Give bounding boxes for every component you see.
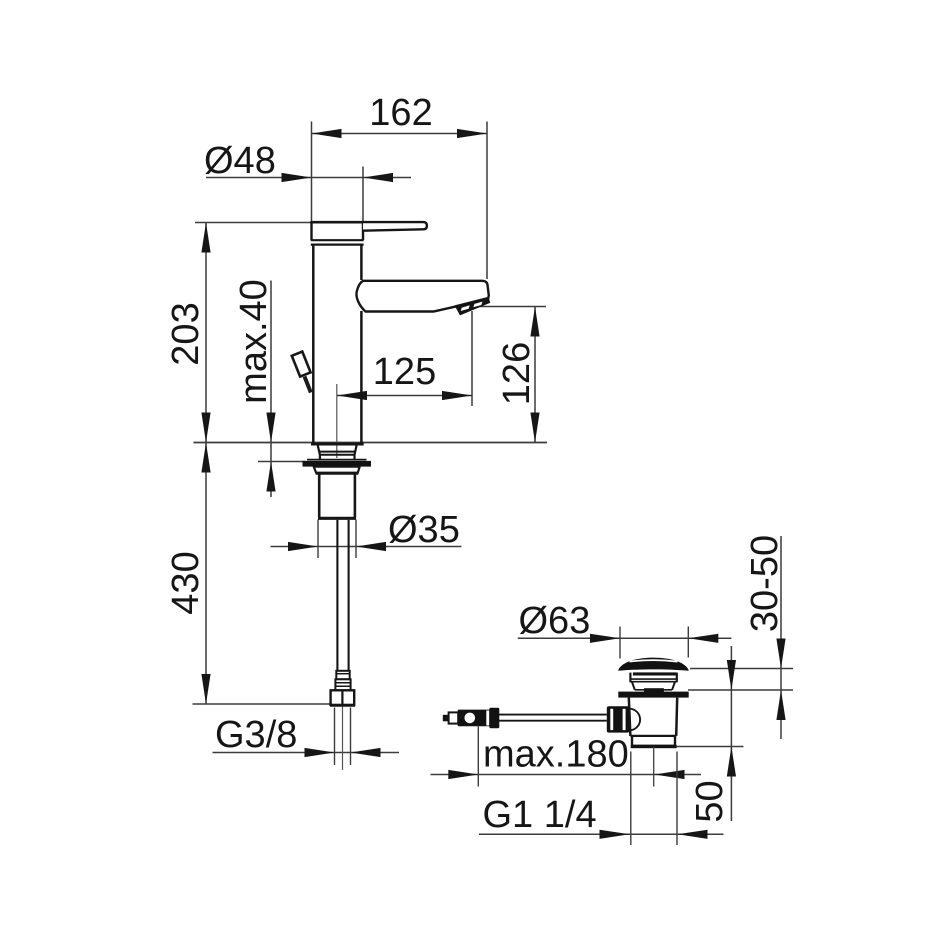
faucet handle cap top xyxy=(310,221,363,224)
shank step 2 bottom line xyxy=(319,454,355,456)
shank step 3 sides xyxy=(320,455,355,460)
dimension O63 line xyxy=(518,637,732,639)
drain plug cap white highlight arc xyxy=(630,660,678,662)
dimension 162 line xyxy=(312,133,488,135)
dimension 125 right extension line xyxy=(471,311,473,406)
ball joint arc inside body xyxy=(629,709,640,731)
dimension max.180 right arrow xyxy=(655,770,685,779)
svg-text:203: 203 xyxy=(165,302,207,365)
dimension O63 right extension line xyxy=(687,627,689,658)
dimension 126 bottom arrow xyxy=(530,413,539,443)
dimension O48 right arrow xyxy=(363,173,393,182)
dimension O48 left arrow xyxy=(282,173,312,182)
rod end nub xyxy=(443,715,450,722)
dimension 30-50 vertical line xyxy=(780,536,782,739)
dimension max.40 lower extension line xyxy=(258,461,306,463)
faucet cap left edge xyxy=(310,222,312,240)
svg-text:Ø48: Ø48 xyxy=(204,140,276,182)
mounting nut xyxy=(314,467,360,473)
pull-rod knob xyxy=(292,352,311,377)
dimension 30-50 upper extension line xyxy=(690,668,793,670)
mounting washer outline xyxy=(307,459,367,461)
hose ferrule 1 ridge xyxy=(336,673,349,675)
dimension 125 right arrow xyxy=(442,391,472,400)
svg-text:G1 1/4: G1 1/4 xyxy=(483,794,597,836)
dimension 203/430 shared vertical line xyxy=(205,223,207,705)
dimension 125 left arrow xyxy=(337,391,367,400)
faucet lever handle xyxy=(363,222,427,231)
dimension G1 1/4 right arrow xyxy=(678,830,708,839)
threaded shank right wall xyxy=(354,475,357,518)
faucet cap right edge xyxy=(362,222,364,240)
dimension 162 right extension line xyxy=(486,122,488,280)
shank step 1 sides xyxy=(318,445,357,452)
svg-text:G3/8: G3/8 xyxy=(215,714,297,756)
dimension 162 left arrow xyxy=(312,129,342,138)
supply hose left wall xyxy=(336,520,338,671)
dimension O35 right arrow xyxy=(356,542,386,551)
dimension 30-50 lower extension line xyxy=(688,689,793,691)
dimension max.40 lower arrow xyxy=(266,462,275,492)
drain plug neck taper xyxy=(632,682,675,690)
spout outline xyxy=(356,281,488,312)
dimension max.180 left arrow xyxy=(448,770,478,779)
faucet body right edge lower xyxy=(360,311,363,443)
dimension max.180 left extension line xyxy=(477,726,479,787)
dimension O48 line xyxy=(206,177,411,179)
svg-text:max.40: max.40 xyxy=(233,279,275,404)
pop-up rod bottom line xyxy=(455,720,607,722)
ball joint nut white slit 2 xyxy=(623,709,626,730)
shank step 1 bottom line xyxy=(318,451,356,453)
shank step 2 sides xyxy=(319,452,355,455)
svg-text:125: 125 xyxy=(373,351,436,393)
drain plug neck dark band xyxy=(633,672,677,675)
rod end ridge xyxy=(489,708,499,729)
dimension 30-50 lower arrow xyxy=(776,690,785,720)
aerator white slit 2 xyxy=(473,302,482,308)
dimension max.180 line xyxy=(431,774,702,776)
dimension G1 1/4 right extension line xyxy=(676,752,678,846)
pop-up rod top line xyxy=(455,714,607,716)
svg-text:126: 126 xyxy=(496,342,538,405)
faucet centre line xyxy=(336,384,338,458)
svg-text:Ø35: Ø35 xyxy=(388,509,460,551)
dimension G3/8 left arrow xyxy=(305,748,335,757)
mounting nut bottom edge xyxy=(316,472,359,475)
dimension O48 right extension line xyxy=(362,167,364,222)
svg-text:max.180: max.180 xyxy=(483,734,629,776)
dimension O35 line xyxy=(271,546,462,548)
svg-text:430: 430 xyxy=(165,551,207,614)
faucet body right edge upper xyxy=(360,245,363,280)
hose ferrule 1 xyxy=(336,671,349,680)
rod end sleeve xyxy=(458,710,491,727)
dimension 126 top extension line xyxy=(472,306,547,308)
drain body walls xyxy=(629,698,677,736)
dimension 430 bottom arrow xyxy=(201,674,210,704)
dimension 50 upper arrow xyxy=(727,660,736,690)
hose ferrule 2 ridges xyxy=(335,683,350,687)
dimension 50 vertical line xyxy=(730,646,732,821)
pull-rod stem xyxy=(305,377,311,393)
faucet body bottom edge at deck xyxy=(311,443,364,446)
threaded shank left wall xyxy=(318,475,321,518)
aerator white slit 1 xyxy=(461,305,470,311)
G3/8 nut bottom edge xyxy=(330,704,355,707)
dimension G1 1/4 line xyxy=(479,833,724,835)
drain tailpiece walls xyxy=(632,736,675,745)
G3/8 nut facet line xyxy=(341,690,343,705)
dimension G3/8 right arrow xyxy=(351,748,381,757)
ball joint nut white slit 1 xyxy=(610,709,613,730)
faucet body left edge xyxy=(312,245,315,443)
deck / mounting surface line xyxy=(194,442,548,444)
dimension O63 left arrow xyxy=(590,634,620,643)
rod end white gap xyxy=(486,711,489,726)
svg-text:162: 162 xyxy=(369,92,432,134)
dimension 203 top extension line xyxy=(195,222,311,224)
mounting washer black bar xyxy=(303,461,372,467)
rod end cap xyxy=(449,712,459,723)
dimension O35 right extension line xyxy=(355,520,357,559)
dimension O35 left extension line xyxy=(317,520,319,559)
aerator outlet band xyxy=(455,297,491,316)
dimension max.40 upper arrow xyxy=(266,413,275,443)
G3/8 connector nut xyxy=(331,690,355,705)
dimension 203 top arrow xyxy=(201,223,210,253)
supply hose right wall xyxy=(348,520,350,671)
faucet collar ring top line xyxy=(311,239,364,241)
dimension G1 1/4 left extension line xyxy=(630,752,632,846)
drain flange black bar xyxy=(618,692,688,698)
drain body bottom line xyxy=(630,735,676,737)
ball joint nut xyxy=(607,706,630,732)
drain plug neck walls xyxy=(630,673,676,682)
dimension 125 line xyxy=(337,395,472,397)
drain plug neck lines xyxy=(630,679,678,682)
drain plug bottom tab xyxy=(644,688,664,692)
drain plug neck bottom line xyxy=(635,689,672,691)
dimension G3/8 left extension line xyxy=(334,708,336,766)
dimension O63 left extension line xyxy=(619,627,621,659)
dimension O35 left arrow xyxy=(288,542,318,551)
drain plug cap dark body xyxy=(618,658,688,671)
dimension 430 top arrow xyxy=(201,443,210,473)
dimension G3/8 line xyxy=(213,752,400,754)
threaded shank bottom edge xyxy=(318,517,356,520)
faucet collar ring bottom line xyxy=(311,244,364,246)
hose ferrule 2 xyxy=(335,679,350,690)
dimension 126 vertical line xyxy=(534,307,536,443)
svg-text:Ø63: Ø63 xyxy=(519,600,591,642)
dimension max.40 vertical line xyxy=(270,281,272,498)
dimension 162 right arrow xyxy=(457,129,487,138)
dimension G1 1/4 left arrow xyxy=(600,830,630,839)
rod end ball xyxy=(465,713,476,724)
dimension 162 left extension line xyxy=(311,122,313,222)
svg-text:30-50: 30-50 xyxy=(744,535,786,632)
dimension 430 bottom extension line xyxy=(193,703,332,705)
dimension 30-50 upper arrow xyxy=(776,639,785,669)
dimension 203 bottom arrow xyxy=(201,413,210,443)
dimension O63 right arrow xyxy=(688,634,718,643)
drain centre extension line xyxy=(653,747,655,787)
dimension G3/8 right extension line xyxy=(350,708,352,766)
dimension 50 lower extension line xyxy=(677,746,744,748)
drain tailpiece bottom bar xyxy=(631,745,677,749)
dimension 50 lower arrow xyxy=(727,747,736,777)
dimension 126 top arrow xyxy=(530,307,539,337)
hose centre line xyxy=(342,706,344,770)
svg-text:50: 50 xyxy=(689,780,731,822)
